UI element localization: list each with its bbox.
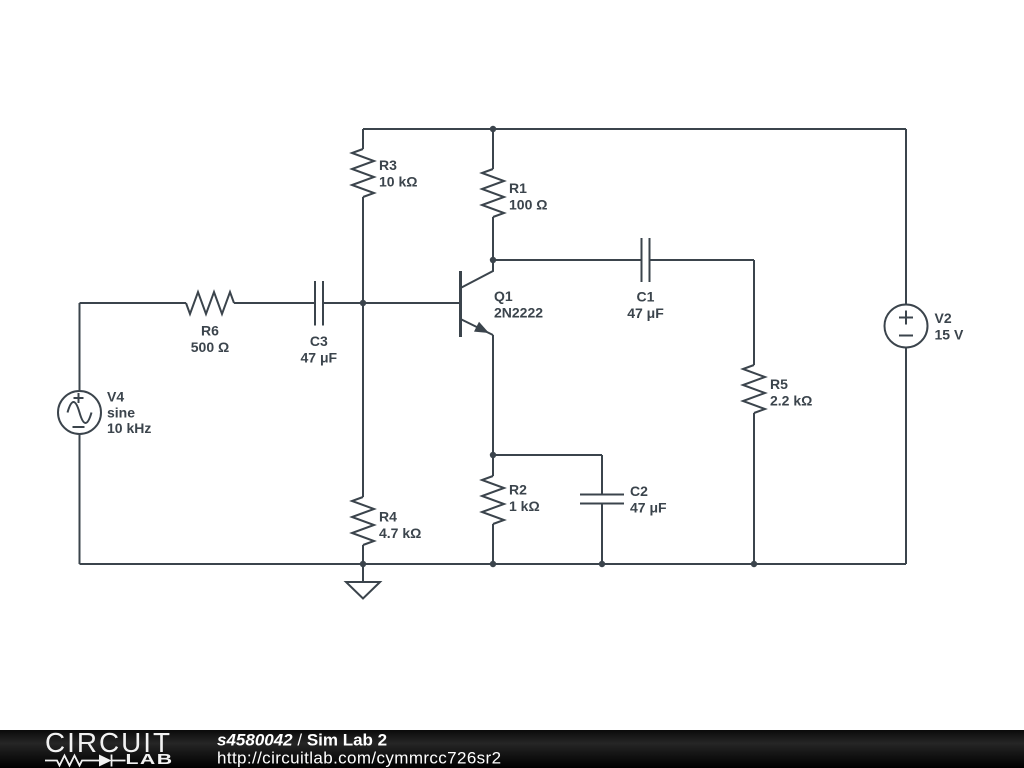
svg-text:47 μF: 47 μF bbox=[630, 500, 667, 516]
svg-text:s4580042 / Sim Lab 2: s4580042 / Sim Lab 2 bbox=[217, 731, 387, 750]
svg-text:R5: R5 bbox=[770, 376, 788, 392]
svg-text:1 kΩ: 1 kΩ bbox=[509, 498, 540, 514]
svg-text:10 kHz: 10 kHz bbox=[107, 420, 151, 436]
svg-text:2N2222: 2N2222 bbox=[494, 305, 543, 321]
svg-text:47 μF: 47 μF bbox=[627, 305, 664, 321]
svg-text:R2: R2 bbox=[509, 482, 527, 498]
svg-text:Q1: Q1 bbox=[494, 288, 513, 304]
svg-text:15 V: 15 V bbox=[935, 327, 964, 343]
svg-text:R6: R6 bbox=[201, 323, 219, 339]
svg-text:sine: sine bbox=[107, 405, 135, 421]
svg-text:C1: C1 bbox=[637, 289, 655, 305]
svg-text:R4: R4 bbox=[379, 509, 397, 525]
svg-text:500 Ω: 500 Ω bbox=[191, 339, 229, 355]
svg-text:C2: C2 bbox=[630, 483, 648, 499]
svg-text:R1: R1 bbox=[509, 180, 527, 196]
svg-text:4.7 kΩ: 4.7 kΩ bbox=[379, 525, 421, 541]
svg-text:http://circuitlab.com/cymmrcc7: http://circuitlab.com/cymmrcc726sr2 bbox=[217, 749, 501, 768]
svg-text:R3: R3 bbox=[379, 157, 397, 173]
svg-text:10 kΩ: 10 kΩ bbox=[379, 174, 417, 190]
svg-text:V4: V4 bbox=[107, 389, 124, 405]
svg-text:C3: C3 bbox=[310, 333, 328, 349]
svg-text:2.2 kΩ: 2.2 kΩ bbox=[770, 393, 812, 409]
svg-text:47 μF: 47 μF bbox=[301, 350, 338, 366]
svg-text:V2: V2 bbox=[935, 310, 952, 326]
svg-text:LAB: LAB bbox=[126, 751, 174, 768]
svg-text:100 Ω: 100 Ω bbox=[509, 197, 547, 213]
